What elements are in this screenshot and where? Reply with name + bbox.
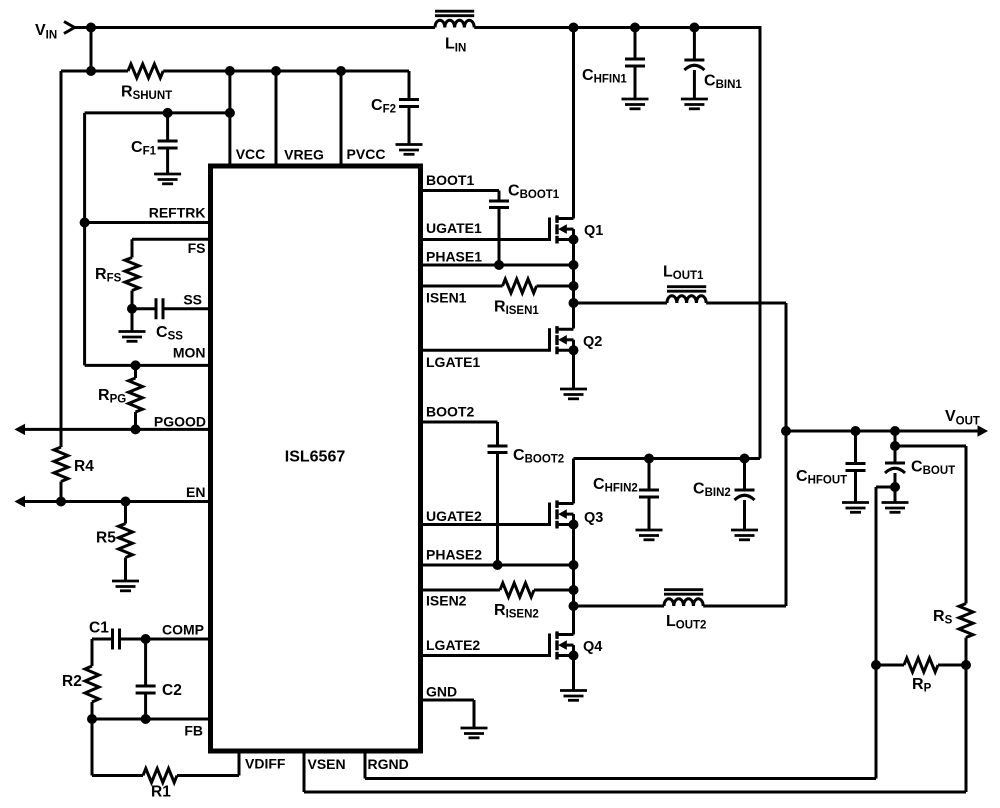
svg-text:ISL6567: ISL6567 <box>285 449 346 466</box>
wire pin PVCC stub <box>340 71 343 164</box>
wire R5 to ground <box>124 558 127 582</box>
wire corner down to CF2 <box>408 71 411 100</box>
wire phase1 node down <box>572 265 575 329</box>
wire pin VREG stub <box>275 71 278 164</box>
wire VSEN sense column <box>965 665 968 792</box>
wire pin ISEN2 <box>423 589 500 592</box>
ground under CHFIN2 <box>636 530 663 540</box>
inductor LOUT2 <box>664 590 706 632</box>
wire MON to RPG <box>134 365 137 378</box>
pin label SS <box>183 292 202 308</box>
junction VCC stub top <box>225 66 235 76</box>
pin label MON <box>173 345 206 361</box>
junction CBIN2 top <box>740 454 750 464</box>
capacitor CBOOT1 <box>489 183 560 208</box>
junction top rail at CHFIN1 <box>630 23 640 33</box>
wire RSHUNT rail right segment <box>163 70 409 73</box>
junction RP right <box>961 660 971 670</box>
wire R4 to EN <box>60 482 63 502</box>
wire left rail VIN to R4 <box>60 71 63 447</box>
junction VIN/RSHUNT rail <box>86 66 96 76</box>
svg-text:PGOOD: PGOOD <box>154 414 206 430</box>
wire CBIN2 to ground <box>743 500 746 530</box>
wire pin MON <box>85 364 209 367</box>
capacitor CSS <box>156 298 183 342</box>
junction PHASE2 node <box>569 560 579 570</box>
svg-text:C1: C1 <box>89 620 109 637</box>
wire pin GND <box>423 699 474 702</box>
resistor RISEN2 <box>494 583 539 621</box>
wire pin BOOT1 <box>423 189 499 192</box>
resistor R2 <box>62 666 99 702</box>
junction MON at RPG <box>131 360 141 370</box>
pin label VDIFF <box>245 756 286 772</box>
wire VIN drop to RSHUNT rail <box>90 28 93 72</box>
wire RFS to SS junction <box>131 291 134 309</box>
svg-text:LGATE2: LGATE2 <box>426 637 480 653</box>
wire pin LGATE2 <box>423 654 550 657</box>
capacitor CBIN1 <box>684 28 742 92</box>
junction CBOOT1 on PHASE1 <box>494 260 504 270</box>
wire pin VSEN stub <box>303 753 306 792</box>
wire pin PGOOD with off-page arrow <box>14 424 209 435</box>
junction RPG on PGOOD <box>131 424 141 434</box>
resistor RSHUNT <box>121 64 172 102</box>
wire Q4 source to ground <box>572 656 575 691</box>
resistor RPG <box>98 378 143 412</box>
svg-text:COMP: COMP <box>162 622 204 638</box>
ground at GND pin <box>461 728 488 738</box>
junction CF1 row at VCC stub <box>225 108 235 118</box>
pin label BOOT2 <box>426 404 474 420</box>
ground under CBIN1 <box>681 99 708 109</box>
ground under CHFIN1 <box>622 99 649 109</box>
pin label PGOOD <box>154 414 206 430</box>
op-amp U1 ISL6567 controller box <box>211 166 421 751</box>
wire CF2 to ground <box>408 107 411 145</box>
wire CBOOT1 to PHASE1 <box>498 208 501 266</box>
capacitor CHFIN1 <box>582 28 645 86</box>
pin label BOOT1 <box>426 172 474 188</box>
transistor Q2 <box>550 326 603 354</box>
pin label FB <box>184 723 203 739</box>
wire LOUT2 left lead <box>574 605 665 608</box>
pin label REFTRK <box>149 205 206 221</box>
svg-text:VCC: VCC <box>236 146 266 162</box>
junction VOUT rail at LOUT column <box>781 426 791 436</box>
junction REFTRK on inner rail <box>80 218 90 228</box>
svg-text:Q4: Q4 <box>583 639 602 655</box>
junction LOUT2 node <box>569 601 579 611</box>
wire pin PHASE2 <box>423 564 574 567</box>
junction C2 on FB <box>141 714 151 724</box>
junction Q2 source <box>569 345 579 355</box>
svg-text:Q2: Q2 <box>583 334 602 350</box>
wire RP right lead <box>938 664 966 667</box>
capacitor C1 <box>89 620 120 650</box>
transistor Q3 <box>550 500 604 528</box>
wire CBIN1 to ground <box>693 70 696 99</box>
wire VIN rail corner down to phase2 <box>759 26 762 459</box>
wire FB corner down to R1 <box>91 719 94 776</box>
svg-text:UGATE1: UGATE1 <box>426 220 482 236</box>
svg-text:EN: EN <box>186 484 205 500</box>
wire EN to R5 <box>124 502 127 524</box>
wire CHFOUT to ground <box>854 471 857 503</box>
pin label VSEN <box>308 756 346 772</box>
wire Q1 source to PHASE1 <box>572 240 575 266</box>
wire RS column upper <box>965 446 968 604</box>
junction RFS/CSS/ground <box>127 304 137 314</box>
junction Q4 source <box>569 651 579 661</box>
wire pin UGATE2 <box>423 523 550 526</box>
wire VOUT column upper <box>785 303 788 606</box>
svg-text:PVCC: PVCC <box>347 146 386 162</box>
wire CBOUT to lower node <box>894 473 897 503</box>
svg-text:LGATE1: LGATE1 <box>426 354 480 370</box>
inductor LIN <box>435 11 474 54</box>
svg-text:VDIFF: VDIFF <box>245 756 286 772</box>
wire phase2 input rail <box>574 457 761 460</box>
wire R1 to VDIFF <box>177 774 239 777</box>
wire pin SS <box>163 307 209 310</box>
svg-text:UGATE2: UGATE2 <box>426 508 482 524</box>
pin label PHASE1 <box>426 249 482 265</box>
ground under CF1 <box>154 174 181 184</box>
resistor RFS <box>95 258 139 291</box>
svg-text:R1: R1 <box>151 784 171 801</box>
wire BOOT2 corner to CBOOT2 <box>496 422 499 446</box>
junction R4 on EN <box>56 497 66 507</box>
wire LOUT1 to VOUT column <box>706 302 786 305</box>
pin label LGATE1 <box>426 354 480 370</box>
capacitor CBOOT2 <box>488 446 565 466</box>
capacitor CHFOUT <box>796 431 866 487</box>
junction CBOUT sense tap <box>890 441 900 451</box>
transistor Q4 <box>550 631 603 659</box>
wire phase2 rail corner to Q3 drain <box>572 459 575 504</box>
resistor R4 <box>54 447 94 482</box>
resistor R1 <box>143 769 177 801</box>
junction COMP at C2 <box>141 634 151 644</box>
wire pin VCC stub <box>228 71 231 164</box>
junction CHFIN2 top <box>644 454 654 464</box>
pin label UGATE1 <box>426 220 482 236</box>
pin label VCC <box>236 146 266 162</box>
wire CF1 to ground <box>166 148 169 174</box>
wire pin COMP <box>146 638 209 641</box>
svg-text:RGND: RGND <box>368 756 409 772</box>
wire RISEN2 to phase node <box>534 589 574 592</box>
wire VSEN return line <box>304 791 966 794</box>
junction PHASE1 node <box>569 260 579 270</box>
pin label ISEN1 <box>426 290 467 306</box>
wire VIN top rail <box>75 26 761 29</box>
capacitor CF2 <box>371 97 419 116</box>
svg-text:ISEN2: ISEN2 <box>426 593 467 609</box>
ground under RFS <box>119 332 146 342</box>
svg-text:Q3: Q3 <box>584 510 603 526</box>
junction R2/R1 on FB <box>87 714 97 724</box>
wire left inner rail x=84.6 <box>83 113 86 366</box>
pin label ISEN2 <box>426 593 467 609</box>
wire pin LGATE1 <box>423 349 550 352</box>
resistor R5 <box>96 524 133 558</box>
svg-text:BOOT2: BOOT2 <box>426 404 474 420</box>
wire RISEN1 to phase node <box>537 285 574 288</box>
wire GND down <box>473 700 476 728</box>
pin label PVCC <box>347 146 386 162</box>
ground under CBIN2 <box>731 530 758 540</box>
pin label EN <box>186 484 205 500</box>
svg-text:SS: SS <box>183 292 202 308</box>
wire RGND return line <box>365 777 876 780</box>
svg-text:VREG: VREG <box>284 147 324 163</box>
capacitor CHFIN2 <box>593 459 659 498</box>
svg-text:MON: MON <box>173 345 206 361</box>
wire C1 left corner <box>92 638 113 641</box>
svg-text:FB: FB <box>184 723 203 739</box>
resistor RISEN1 <box>494 279 539 317</box>
node VIN input terminal <box>35 22 75 42</box>
wire VOUT to CBOUT <box>894 431 897 463</box>
wire SS junction to CSS <box>132 307 156 310</box>
junction Q3 source <box>569 520 579 530</box>
junction Q1 source <box>569 235 579 245</box>
pin label VREG <box>284 147 324 163</box>
wire Q3 source to PHASE2 <box>572 525 575 566</box>
wire VOUT rail <box>786 430 979 433</box>
wire RS to RP <box>965 638 968 666</box>
wire corner down to R2 <box>91 639 94 666</box>
ground under CHFOUT <box>842 503 869 513</box>
wire pin BOOT2 <box>423 421 498 424</box>
svg-text:VSEN: VSEN <box>308 756 346 772</box>
wire BOOT1 corner to CBOOT1 <box>498 191 501 202</box>
ground under Q2 <box>560 389 587 399</box>
wire Q1 drain to VIN rail <box>572 28 575 219</box>
wire C2 to FB <box>144 693 147 719</box>
wire pin EN with off-page arrow <box>14 496 209 507</box>
wire phase2 node down <box>572 565 575 635</box>
svg-text:BOOT1: BOOT1 <box>426 172 474 188</box>
junction top rail at Q1 drain column <box>569 23 579 33</box>
svg-text:R5: R5 <box>96 530 116 547</box>
svg-text:PHASE2: PHASE2 <box>426 547 482 563</box>
wire pin RGND stub <box>364 753 367 779</box>
wire C1 to COMP junction <box>120 638 146 641</box>
junction CF1 top <box>163 108 173 118</box>
junction CHFOUT top <box>851 426 861 436</box>
junction VIN at x=91 <box>86 23 96 33</box>
wire pin FB <box>92 718 209 721</box>
wire CHFIN1 to ground <box>634 66 637 99</box>
junction VREG stub top <box>271 66 281 76</box>
svg-text:ISEN1: ISEN1 <box>426 290 467 306</box>
wire RPG to PGOOD <box>134 412 137 429</box>
junction CBOOT2 on PHASE2 <box>493 560 503 570</box>
wire FS down to RFS <box>131 239 134 257</box>
inductor LOUT1 <box>663 264 706 304</box>
ground under Q4 <box>560 691 587 701</box>
wire RGND sense column <box>875 487 878 779</box>
capacitor CF1 <box>131 113 178 158</box>
pin label RGND <box>368 756 409 772</box>
wire CF1 row <box>85 111 230 114</box>
svg-text:FS: FS <box>188 240 206 256</box>
wire CHFIN2 to ground <box>648 497 651 530</box>
wire pin PHASE1 <box>423 264 574 267</box>
junction CBOUT bottom <box>890 482 900 492</box>
wire pin UGATE1 <box>423 238 550 241</box>
pin label FS <box>188 240 206 256</box>
pin label LGATE2 <box>426 637 480 653</box>
junction ISEN2 node <box>569 585 579 595</box>
ground under CF2 <box>396 145 423 155</box>
junction RP left <box>871 660 881 670</box>
wire pin FS <box>132 238 209 241</box>
wire RP left lead <box>876 664 904 667</box>
svg-text:REFTRK: REFTRK <box>149 205 206 221</box>
pin label COMP <box>162 622 204 638</box>
junction LOUT1 node <box>569 298 579 308</box>
wire pin REFTRK <box>85 221 209 224</box>
transistor Q1 <box>550 215 604 243</box>
node VOUT terminal <box>945 408 988 437</box>
junction CBOUT top <box>890 426 900 436</box>
svg-text:R2: R2 <box>62 673 82 690</box>
wire CBOUT bottom to left column <box>876 486 895 489</box>
junction ISEN1 node <box>569 281 579 291</box>
junction PVCC stub top <box>336 66 346 76</box>
wire CBOOT2 to PHASE2 <box>496 453 499 566</box>
wire pin ISEN1 <box>423 285 503 288</box>
wire LOUT2 to VOUT column <box>703 605 786 608</box>
ground under CBOUT <box>882 503 909 513</box>
wire R2 to FB <box>91 702 94 719</box>
resistor RS <box>933 604 973 638</box>
pin label UGATE2 <box>426 508 482 524</box>
capacitor C2 <box>136 639 182 699</box>
svg-text:Q1: Q1 <box>584 223 603 239</box>
junction R5 on EN <box>121 497 131 507</box>
wire SS junction to ground <box>131 309 134 332</box>
wire RSHUNT rail left segment <box>61 70 128 73</box>
pin label PHASE2 <box>426 547 482 563</box>
wire sense tap to RS column <box>895 445 966 448</box>
resistor RP <box>904 658 938 695</box>
svg-text:GND: GND <box>426 684 457 700</box>
ground under R5 <box>112 581 139 591</box>
svg-text:PHASE1: PHASE1 <box>426 249 482 265</box>
wire pin VDIFF stub <box>238 753 241 776</box>
svg-text:C2: C2 <box>162 682 182 699</box>
svg-text:R4: R4 <box>74 458 94 475</box>
junction top rail at CBIN1 <box>689 23 699 33</box>
wire LOUT1 left lead <box>574 302 668 305</box>
pin label GND <box>426 684 457 700</box>
wire R1 left lead <box>92 774 143 777</box>
capacitor CBIN2 <box>693 459 755 501</box>
capacitor CBOUT <box>885 459 955 478</box>
wire Q2 source to ground <box>572 350 575 389</box>
